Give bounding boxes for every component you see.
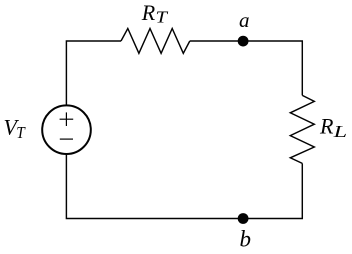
- svg-text:R: R: [141, 0, 156, 25]
- resistor R_L (vertical zigzag): [290, 95, 314, 163]
- svg-text:T: T: [16, 123, 26, 142]
- label V_T: [4, 114, 27, 142]
- label R_T: [141, 0, 169, 27]
- svg-text:a: a: [239, 8, 250, 32]
- voltage source V_T (circle): [42, 105, 91, 154]
- node b (junction dot): [238, 213, 249, 224]
- wire from V_T + terminal up to top-left corner and to R_T left lead: [66, 41, 121, 105]
- wire from R_T right lead to node a: [190, 40, 243, 42]
- svg-text:L: L: [332, 122, 347, 141]
- svg-text:T: T: [156, 8, 169, 27]
- resistor R_T (zigzag): [121, 29, 190, 54]
- wire from node b to bottom-left corner up to V_T - terminal: [66, 154, 242, 219]
- minus sign inside source: [60, 138, 73, 140]
- node a (junction dot): [238, 36, 249, 47]
- svg-text:R: R: [319, 113, 334, 138]
- label R_L: [319, 113, 347, 141]
- wire from node a to top-right corner down to R_L top lead: [243, 41, 303, 95]
- plus sign inside source: [60, 112, 74, 126]
- svg-text:b: b: [240, 226, 252, 251]
- wire from R_L bottom lead to bottom-right corner to node b: [243, 163, 303, 218]
